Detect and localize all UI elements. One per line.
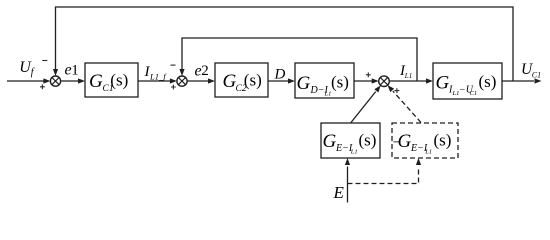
svg-text:2: 2 — [201, 63, 209, 79]
svg-text:L1: L1 — [404, 72, 412, 80]
svg-text:L1_f: L1_f — [149, 72, 167, 82]
svg-text:C1: C1 — [532, 70, 541, 79]
svg-text:E: E — [333, 183, 345, 202]
svg-text:D: D — [274, 67, 286, 83]
svg-text:1: 1 — [71, 63, 79, 79]
